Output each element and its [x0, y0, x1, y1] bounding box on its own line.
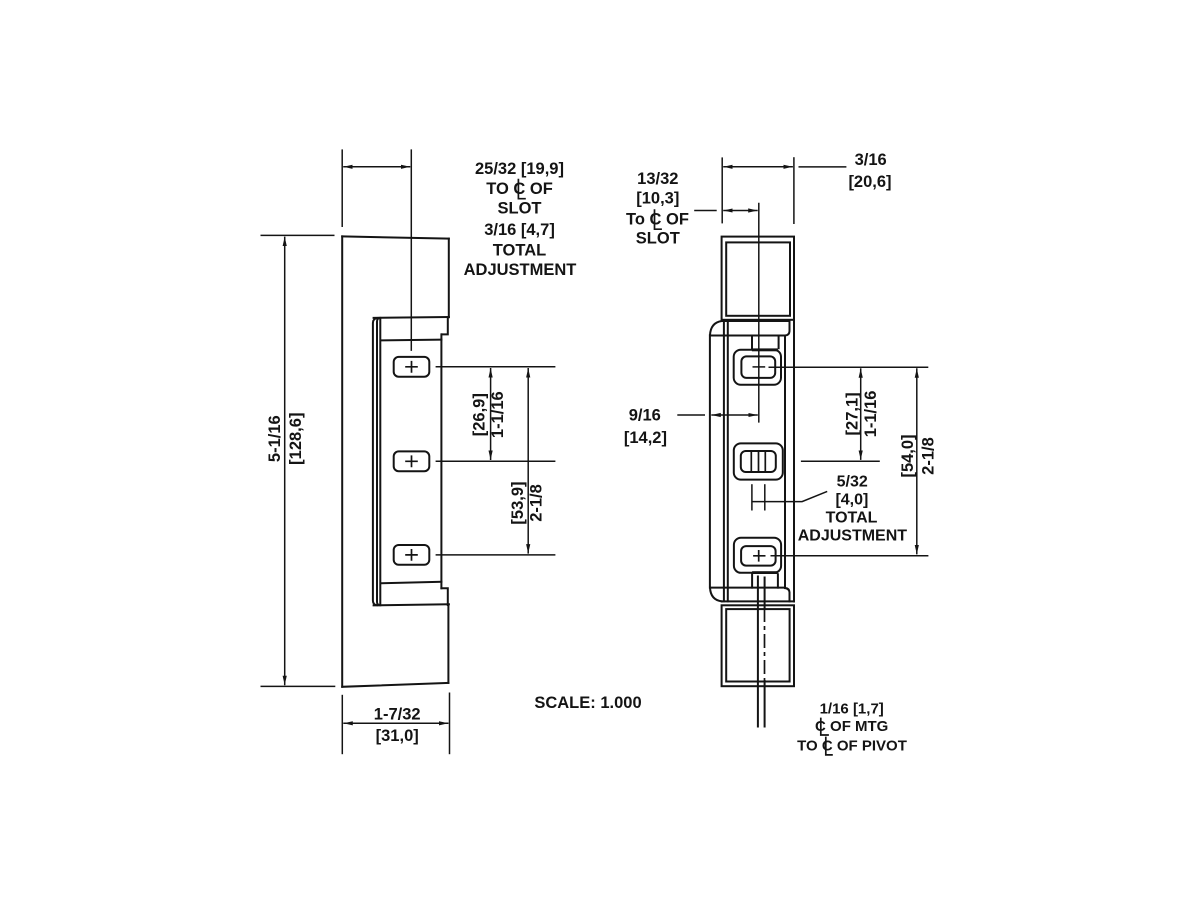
svg-text:3/16: 3/16: [855, 151, 887, 169]
svg-text:To C OF: To C OF: [626, 211, 689, 229]
svg-text:ADJUSTMENT: ADJUSTMENT: [798, 528, 908, 545]
svg-text:[31,0]: [31,0]: [376, 727, 419, 745]
svg-text:[4,0]: [4,0]: [835, 492, 868, 509]
svg-text:2-1/8: 2-1/8: [528, 484, 546, 522]
svg-text:[14,2]: [14,2]: [624, 429, 667, 447]
svg-text:TOTAL: TOTAL: [493, 242, 546, 260]
svg-text:1-7/32: 1-7/32: [374, 706, 421, 724]
svg-text:TOTAL: TOTAL: [826, 510, 878, 527]
svg-text:[26,9]: [26,9]: [470, 393, 488, 436]
svg-text:C OF MTG: C OF MTG: [815, 718, 888, 735]
svg-text:5/32: 5/32: [837, 474, 868, 491]
svg-text:[53,9]: [53,9]: [509, 481, 527, 524]
svg-text:13/32: 13/32: [637, 170, 678, 188]
svg-text:SLOT: SLOT: [636, 230, 680, 248]
svg-text:[10,3]: [10,3]: [636, 190, 679, 208]
svg-text:1-1/16: 1-1/16: [489, 391, 507, 438]
svg-text:ADJUSTMENT: ADJUSTMENT: [464, 261, 577, 279]
svg-text:25/32 [19,9]: 25/32 [19,9]: [475, 160, 564, 178]
svg-text:SLOT: SLOT: [498, 200, 542, 218]
svg-text:3/16 [4,7]: 3/16 [4,7]: [484, 221, 555, 239]
svg-text:[20,6]: [20,6]: [848, 173, 891, 191]
svg-text:[128,6]: [128,6]: [287, 413, 305, 465]
svg-text:TO C OF: TO C OF: [486, 180, 553, 198]
svg-text:[54,0]: [54,0]: [899, 434, 917, 477]
svg-text:9/16: 9/16: [629, 407, 661, 425]
svg-text:TO C OF PIVOT: TO C OF PIVOT: [797, 738, 907, 755]
svg-text:5-1/16: 5-1/16: [266, 415, 284, 462]
svg-text:SCALE: 1.000: SCALE: 1.000: [534, 694, 641, 712]
svg-text:1-1/16: 1-1/16: [862, 391, 880, 438]
svg-text:[27,1]: [27,1]: [844, 392, 862, 435]
svg-text:2-1/8: 2-1/8: [919, 437, 937, 475]
svg-text:1/16 [1,7]: 1/16 [1,7]: [820, 700, 884, 717]
